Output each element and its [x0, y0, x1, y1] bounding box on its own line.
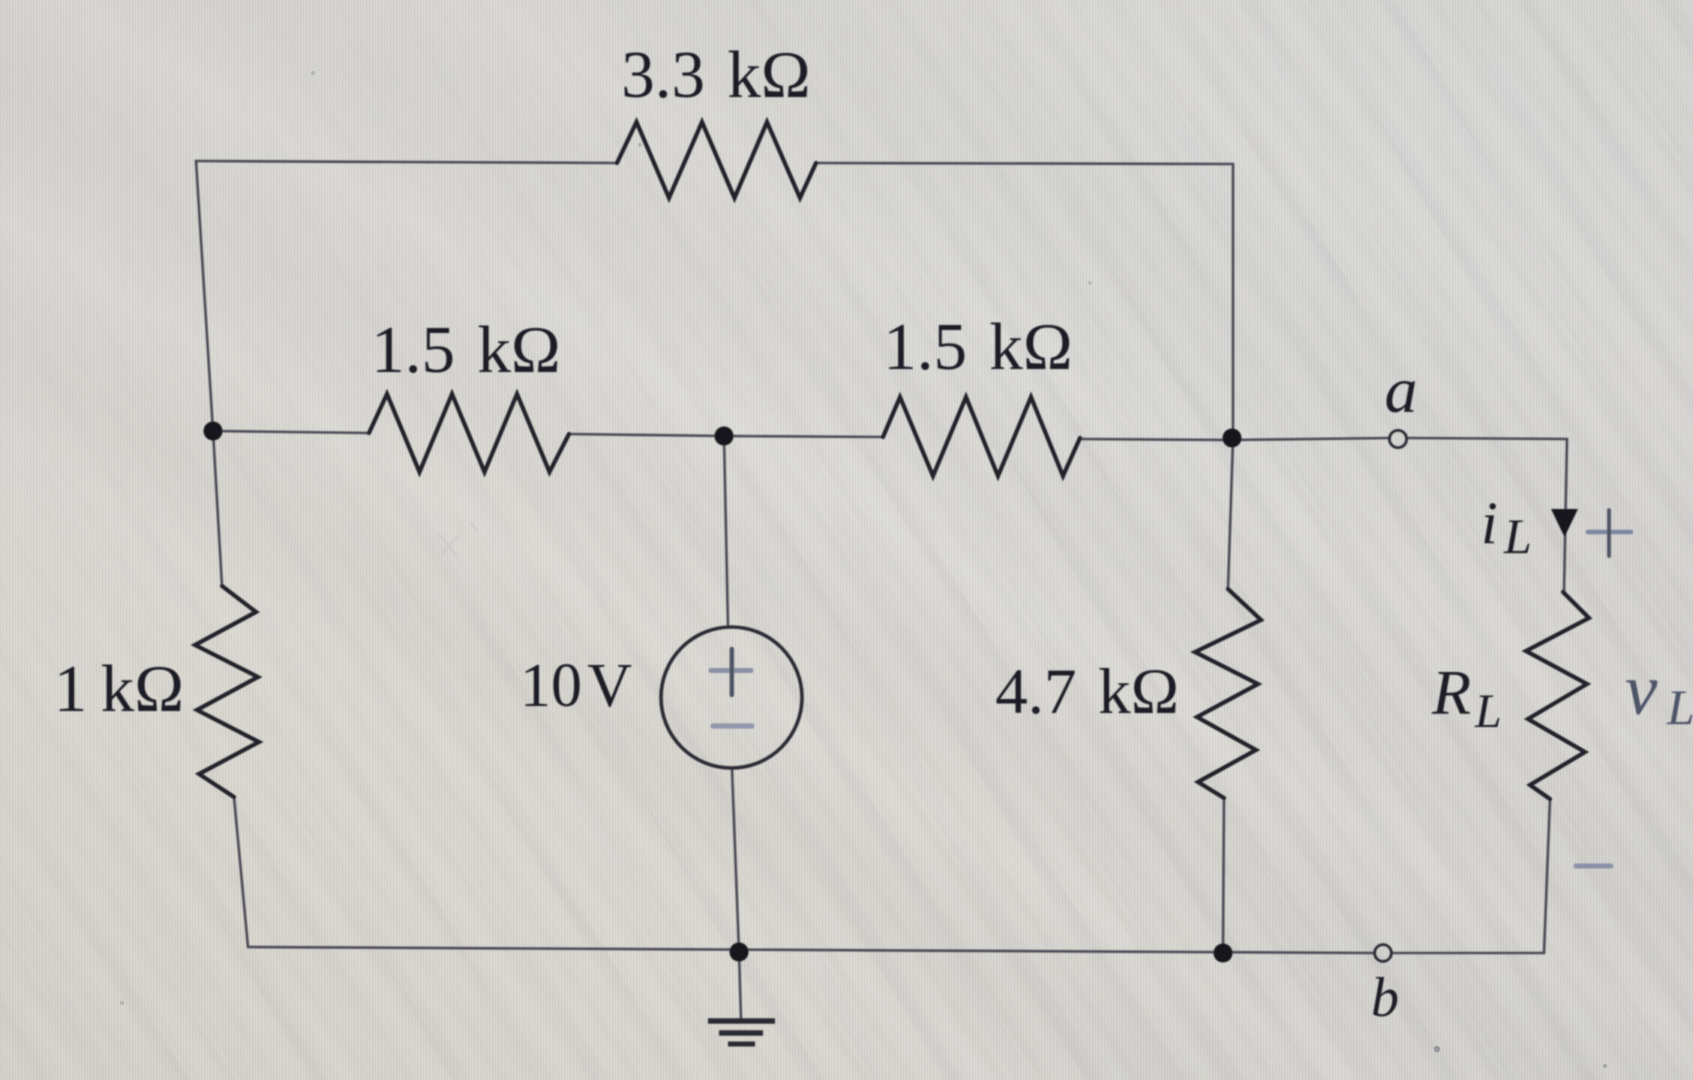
svg-text:L: L [1666, 679, 1693, 735]
svg-text:b: b [1371, 967, 1399, 1029]
svg-text:i: i [1481, 490, 1498, 556]
svg-text:1 kΩ: 1 kΩ [54, 652, 184, 726]
svg-text:L: L [1474, 685, 1502, 738]
svg-text:1.5 kΩ: 1.5 kΩ [883, 310, 1072, 384]
svg-text:R: R [1431, 657, 1471, 728]
svg-text:1.5 kΩ: 1.5 kΩ [371, 313, 560, 387]
svg-text:4.7 kΩ: 4.7 kΩ [995, 656, 1179, 728]
svg-text:L: L [1503, 508, 1532, 564]
svg-text:v: v [1625, 649, 1658, 730]
svg-text:a: a [1385, 354, 1418, 427]
svg-text:10 V: 10 V [520, 652, 632, 720]
svg-text:3.3 kΩ: 3.3 kΩ [621, 38, 810, 112]
